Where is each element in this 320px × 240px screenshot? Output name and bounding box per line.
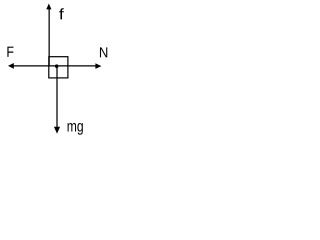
center dot [55,64,59,68]
horizontal wire F-N [13,65,96,67]
svg-text:f: f [59,6,64,24]
free-body diagram [0,0,113,141]
down arrow shaft mg [56,66,58,127]
svg-text:F: F [6,44,14,60]
svg-text:mg: mg [67,117,84,135]
arrowhead f (up) [46,4,51,10]
arrowhead F (left) [8,63,14,69]
arrowhead mg (down) [54,127,60,134]
box (body) [49,57,68,78]
arrowhead N (right) [95,63,101,69]
svg-text:N: N [99,44,108,61]
up arrow shaft f [48,9,50,67]
